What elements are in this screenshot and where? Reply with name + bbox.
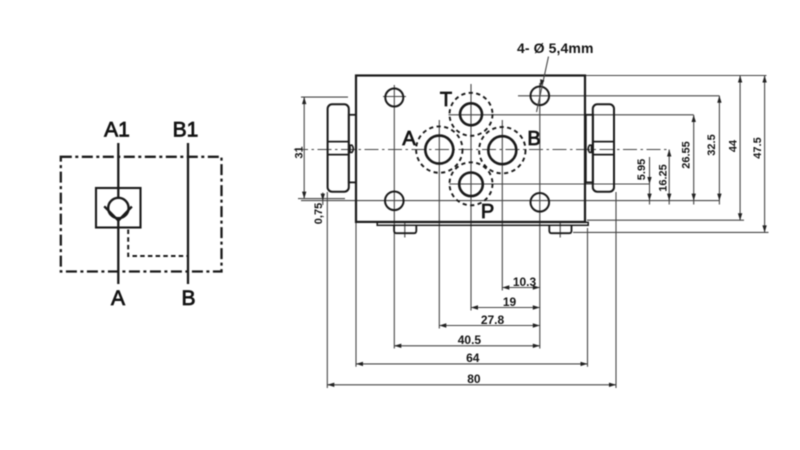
svg-text:40.5: 40.5	[458, 333, 482, 347]
valve body plate	[356, 76, 585, 222]
arrow leader	[540, 79, 544, 86]
check valve box	[96, 188, 141, 228]
svg-text:A: A	[402, 128, 416, 150]
port B hole	[488, 136, 516, 164]
left block band lines	[328, 141, 349, 143]
BODY DRAWING : thin lines	[294, 76, 769, 389]
31 bottom extension	[298, 198, 345, 200]
dim line 32.5	[718, 96, 720, 205]
left foot tab	[394, 226, 416, 233]
right block band lines	[593, 141, 614, 143]
body right edge extension	[587, 228, 589, 367]
dim line 0.75	[322, 193, 324, 206]
svg-text:A: A	[111, 287, 125, 310]
DIMENSIONS	[304, 57, 764, 385]
arrows 32.5	[717, 96, 721, 103]
arrows 40.5	[394, 344, 401, 348]
dim line 31	[303, 97, 305, 199]
port P hole	[459, 173, 483, 197]
BODY DRAWING : outlines	[328, 76, 614, 234]
dim line 19	[471, 307, 540, 309]
svg-text:16.25: 16.25	[658, 164, 670, 192]
arrows 16.25	[667, 150, 671, 157]
right tab centerline	[559, 221, 561, 238]
B centerline vertical	[501, 120, 503, 291]
block right outer extension	[615, 192, 617, 388]
bolt column right vertical	[539, 83, 541, 349]
svg-text:47.5: 47.5	[752, 137, 764, 158]
P extension right	[449, 183, 649, 185]
foot bottom extension right (47.5)	[573, 231, 769, 233]
bolt hole bottom-left	[385, 192, 404, 211]
T extension right	[449, 114, 694, 116]
svg-text:19: 19	[503, 295, 517, 309]
svg-text:5.95: 5.95	[636, 159, 648, 180]
arrow 0.75	[321, 194, 325, 201]
pilot line (dashed)	[128, 230, 188, 257]
dim line 26.55	[693, 115, 695, 205]
enclosure (dash-dot box)	[61, 157, 222, 272]
port B counterbore (dashed)	[479, 127, 525, 173]
T/P centerline vertical	[470, 84, 472, 311]
centerline A/B horizontal	[294, 149, 669, 151]
right block nib	[588, 145, 591, 152]
bolt hole bottom-right	[531, 193, 550, 212]
left block nib	[350, 145, 353, 152]
wire B1-B vertical	[187, 143, 189, 284]
dim line 16.25	[668, 150, 670, 205]
dim line 47.5	[764, 76, 766, 233]
right block strip	[586, 115, 593, 183]
left block strip	[349, 115, 356, 183]
arrows 19	[471, 305, 478, 309]
dim line 80	[327, 384, 616, 386]
bottom lip	[377, 222, 588, 225]
port T counterbore (dashed)	[450, 93, 493, 136]
centerline bottom holes / reference	[301, 200, 719, 202]
port T hole	[460, 103, 482, 125]
port A hole	[425, 136, 453, 164]
port P counterbore (dashed)	[450, 162, 493, 205]
svg-text:0,75: 0,75	[313, 203, 325, 224]
arrows 64	[356, 362, 363, 366]
left side block	[328, 104, 349, 191]
svg-text:B1: B1	[173, 119, 199, 142]
right side block	[593, 104, 614, 191]
arrows 10.3	[502, 285, 509, 289]
arrows 44	[738, 76, 742, 83]
check valve seat V	[104, 206, 132, 220]
svg-text:T: T	[440, 89, 452, 111]
SCHEMATIC	[61, 143, 222, 284]
port A counterbore (dashed)	[416, 126, 462, 172]
bolt hole top-left	[385, 89, 403, 107]
svg-text:P: P	[481, 201, 494, 223]
ARROWHEADS	[302, 76, 767, 388]
bolt column left vertical	[393, 85, 395, 349]
arrows 47.5	[762, 76, 766, 83]
centerline top holes	[383, 96, 406, 98]
dim line 64	[356, 363, 588, 365]
svg-text:31: 31	[294, 146, 306, 158]
dim line 5.95	[649, 157, 651, 205]
left tab centerline	[404, 221, 406, 238]
wire A1-A vertical	[117, 143, 119, 284]
arrows 31	[302, 97, 306, 104]
arrows 26.55	[692, 115, 696, 122]
31 top extension	[301, 96, 348, 98]
bolt hole top-right	[531, 87, 550, 106]
svg-text:64: 64	[466, 351, 480, 365]
svg-text:B: B	[527, 128, 540, 150]
right foot tab	[549, 226, 571, 233]
A centerline vertical	[438, 120, 440, 329]
check valve ball	[108, 198, 128, 218]
block left outer extension	[326, 192, 328, 388]
svg-text:10.3: 10.3	[513, 275, 537, 289]
dim line 40.5	[394, 345, 540, 347]
bottom edge extension right (44)	[587, 219, 744, 221]
arrows 27.8	[439, 323, 446, 327]
svg-text:26.55: 26.55	[681, 141, 693, 169]
svg-text:B: B	[181, 287, 195, 310]
dim line 10.3	[502, 287, 540, 289]
svg-text:32.5: 32.5	[706, 134, 718, 155]
svg-text:80: 80	[467, 372, 481, 386]
dim line 27.8	[439, 325, 540, 327]
svg-text:4- Ø 5,4mm: 4- Ø 5,4mm	[517, 40, 593, 56]
body left edge extension	[355, 222, 357, 367]
dim line 44	[739, 76, 741, 221]
svg-text:A1: A1	[104, 119, 130, 142]
svg-text:27.8: 27.8	[481, 313, 505, 327]
svg-text:44: 44	[728, 139, 740, 152]
arrows 80	[327, 383, 334, 387]
leader 5.4mm	[537, 57, 549, 113]
wire A through box	[117, 188, 119, 228]
top edge extension right	[585, 75, 767, 77]
arrows 5.95	[647, 177, 651, 184]
